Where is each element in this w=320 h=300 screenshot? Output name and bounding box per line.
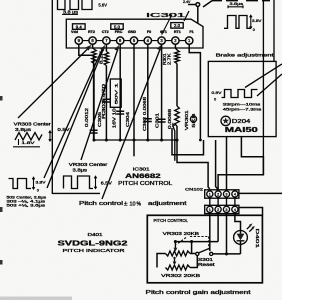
LED arrows xyxy=(247,225,254,232)
capacitor 50V 1 boxed under pin6 xyxy=(119,44,121,140)
wiper VR301 xyxy=(173,126,175,161)
pin circles 9..1 xyxy=(75,37,82,44)
leader D2 xyxy=(44,50,102,179)
wire pin5 GND down xyxy=(133,44,135,156)
resistor 8.2K under pin8 xyxy=(93,44,94,49)
LED D401 xyxy=(234,231,248,245)
diode D204 star xyxy=(221,116,230,125)
capacitor C305 plates xyxy=(102,99,110,102)
wires brake box outputs xyxy=(226,137,228,191)
dashed mechanical link xyxy=(177,237,209,250)
wire terminal down xyxy=(197,6,199,23)
terminal node output xyxy=(188,4,196,6)
switch S301 xyxy=(190,253,196,255)
junction dots xyxy=(92,138,95,141)
wire bus end down to CN102 pin2 xyxy=(216,140,219,190)
leader diagonals into brake box xyxy=(245,64,282,96)
wire F1 down to bus xyxy=(189,44,200,140)
brake detail box xyxy=(208,61,276,136)
waveform top-left pulses xyxy=(58,0,93,10)
capacitor C302 0.0068 under pin4 xyxy=(147,44,149,140)
ticks between pin circles xyxy=(83,40,186,42)
potentiometer VR302 xyxy=(166,265,191,270)
scan marks left edge xyxy=(0,96,3,101)
wire wiper stair A xyxy=(172,128,204,155)
wire stair B bus to CN102 pin1 xyxy=(177,140,210,189)
op-amp U IC301 box xyxy=(66,19,203,48)
voltage box 9.4 xyxy=(73,24,86,30)
potentiometer VR303 xyxy=(166,251,191,256)
wire left border vertical xyxy=(52,0,100,193)
brake waveform xyxy=(222,90,258,98)
wire to LED top xyxy=(235,213,241,230)
connector row1 xyxy=(205,190,239,198)
leader to terminal xyxy=(203,0,213,7)
capacitor C301 0.0068 under pin3 xyxy=(161,44,163,140)
leader IC301 to pin3 xyxy=(163,15,172,33)
capacitor C306 plates xyxy=(90,130,98,133)
connector row2 xyxy=(205,205,239,213)
PITCH CONTROL outer box xyxy=(147,215,262,282)
potentiometer VR301 5KB xyxy=(175,106,180,126)
node circle xyxy=(190,116,196,122)
wire pin9 down xyxy=(79,44,94,140)
wire second right vertical xyxy=(273,0,275,61)
wire right boundary xyxy=(262,0,264,175)
stubs between rows xyxy=(210,198,235,205)
wires connector into box xyxy=(209,213,211,251)
leader D3 to pin7 xyxy=(47,48,104,188)
wiper arrow VR302 xyxy=(174,259,176,263)
wire row1 to right edge xyxy=(239,192,282,194)
resistor R301 2.7K under pin2 xyxy=(175,44,177,50)
wiper arrow VR303 xyxy=(174,242,176,249)
leader D4 to pin3 xyxy=(102,48,161,200)
ground bus 1 xyxy=(94,139,177,141)
voltage box 5.0 xyxy=(111,24,123,30)
wire row2 to pitch box edge xyxy=(239,208,263,216)
wire brake output B staircase xyxy=(218,137,263,189)
cut text fragments top edge xyxy=(212,0,270,2)
leader D1 sawtooth note to pin8 xyxy=(18,47,90,118)
leader L3 to pin6 xyxy=(81,49,118,161)
note square wave 3.8V bottom-left xyxy=(9,179,32,189)
wire switch to LED xyxy=(213,253,241,255)
resistor R303 470 under pin7 xyxy=(105,44,107,51)
voltage box 2.0 xyxy=(171,23,183,29)
